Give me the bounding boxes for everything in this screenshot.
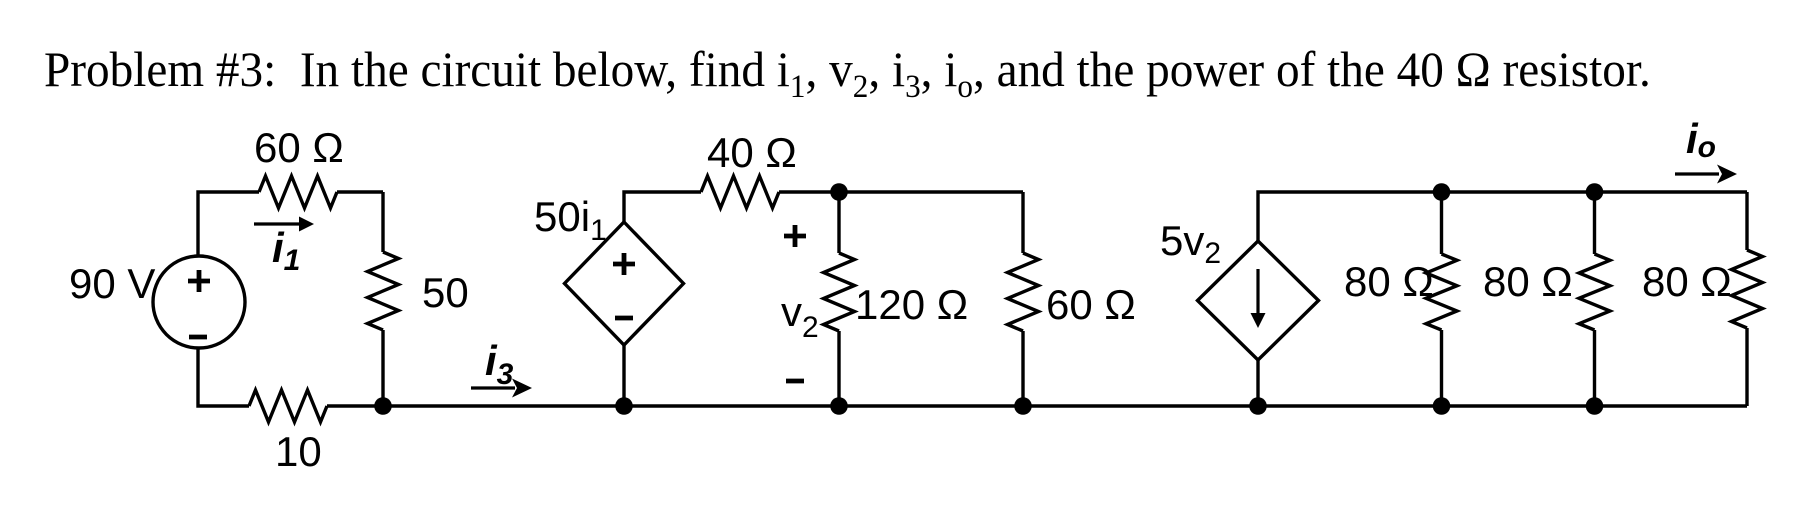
svg-text:80 Ω: 80 Ω [1642,258,1732,305]
svg-text:90 V: 90 V [69,260,155,307]
svg-text:40 Ω: 40 Ω [707,129,797,176]
svg-text:50: 50 [422,269,469,316]
svg-text:10: 10 [275,428,322,475]
svg-text:80 Ω: 80 Ω [1344,258,1434,305]
svg-text:Problem #3: In the circuit be: Problem #3: In the circuit below, find i… [44,42,1651,104]
svg-text:60 Ω: 60 Ω [1046,281,1136,328]
svg-text:120 Ω: 120 Ω [855,281,968,328]
svg-text:80 Ω: 80 Ω [1483,258,1573,305]
svg-text:60 Ω: 60 Ω [254,124,344,171]
